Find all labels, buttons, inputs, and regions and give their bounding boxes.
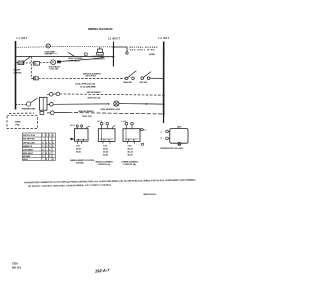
- thermostat U4 box: [170, 129, 188, 144]
- wire row C to bus: [150, 77, 164, 79]
- switch blade on row B: [68, 52, 75, 56]
- svg-text:OFF ALL SW: OFF ALL SW: [23, 141, 35, 144]
- relay coil RL1 circle: [51, 60, 56, 65]
- svg-text:L2 HOT: L2 HOT: [159, 37, 170, 40]
- wire row B' dash-dot: [23, 62, 34, 64]
- switch blade CB1: [23, 57, 30, 63]
- wire row 2 to bus: [147, 103, 164, 105]
- junction rowA x neutral: [113, 46, 115, 48]
- svg-text:NO 114: NO 114: [12, 266, 21, 270]
- fuse F1 small box on row C: [34, 77, 39, 80]
- svg-text:6D-44: 6D-44: [128, 151, 134, 154]
- relay K1 box: [34, 62, 40, 66]
- lamp DS1: [114, 101, 119, 106]
- svg-text:MAIN ELEMENT: MAIN ELEMENT: [79, 110, 95, 113]
- terminal T1a: [49, 92, 53, 96]
- wire row B solid (L1 to neutral): [16, 55, 114, 57]
- svg-text:6D-43: 6D-43: [103, 154, 108, 157]
- svg-text:MAIN: MAIN: [15, 120, 21, 123]
- wire row B' continues: [61, 57, 104, 61]
- wire mid neutral vertical: [112, 42, 114, 67]
- thermostat S4 circle: [26, 102, 30, 106]
- svg-text:0: 0: [49, 142, 50, 144]
- svg-text:6D-42: 6D-42: [128, 148, 133, 151]
- svg-text:2.: 2.: [161, 138, 163, 140]
- terminal T1b: [56, 92, 60, 96]
- svg-text:L1 HOT: L1 HOT: [17, 37, 28, 40]
- terminal ground bond: [126, 52, 128, 54]
- svg-text:240V HEATER LIGHT: 240V HEATER LIGHT: [101, 108, 122, 111]
- wire row 3 left dashed: [9, 112, 34, 114]
- svg-text:2-E1A-1M IN (120V-1A): 2-E1A-1M IN (120V-1A): [75, 83, 96, 86]
- svg-text:CUTOFF: CUTOFF: [45, 54, 53, 56]
- U3 right terminal: [141, 128, 143, 130]
- svg-text:L2 NEUT: L2 NEUT: [108, 37, 121, 40]
- svg-text:LOW HEAT: LOW HEAT: [23, 148, 34, 151]
- svg-text:L1 L2: L1 L2: [122, 121, 127, 123]
- svg-text:0: 0: [46, 142, 47, 144]
- svg-text:6D-41: 6D-41: [103, 148, 108, 151]
- svg-text:HIGH: HIGH: [23, 159, 28, 161]
- element control U2 box: [98, 129, 115, 142]
- svg-text:COIL 24V: COIL 24V: [50, 68, 60, 71]
- table switch positions: [22, 133, 55, 160]
- element control U1 box: [74, 129, 88, 142]
- svg-text:SW 2-POLE: SW 2-POLE: [86, 76, 97, 78]
- selector switch SW1 box: [40, 97, 48, 110]
- svg-text:6D-42: 6D-42: [103, 151, 108, 154]
- svg-text:3: 3: [49, 135, 50, 137]
- svg-text:MED HEAT: MED HEAT: [23, 152, 34, 155]
- junction rowC x bus: [163, 78, 165, 80]
- svg-text:CONTROL (A): CONTROL (A): [98, 163, 111, 166]
- svg-text:CHANGEOVER CONNECTED TO HOT UP: CHANGEOVER CONNECTED TO HOT UPFLOW FROM …: [24, 179, 197, 185]
- svg-text:AUX SW: AUX SW: [140, 81, 148, 84]
- svg-text:WIRING DIAGRAM: WIRING DIAGRAM: [88, 27, 113, 31]
- U3 terminal list: [128, 146, 134, 157]
- svg-text:0: 0: [53, 142, 54, 144]
- svg-text:NEUTRAL BONDED: NEUTRAL BONDED: [130, 46, 159, 49]
- svg-text:SW SETTING: SW SETTING: [23, 139, 35, 141]
- svg-text:GRD NEUT WIRE: GRD NEUT WIRE: [130, 50, 156, 52]
- terminal T2a: [50, 103, 54, 107]
- thermostat S4 feed dashed: [16, 103, 27, 105]
- U4 terminal 2: [166, 137, 169, 140]
- junction rowB x neutral: [112, 56, 114, 58]
- svg-text:MAIN ELEMENT CONTROL: MAIN ELEMENT CONTROL: [70, 159, 96, 162]
- wire row A dotted (L1 to neutral): [16, 46, 47, 48]
- svg-text:CONTROL (B): CONTROL (B): [123, 164, 136, 166]
- svg-text:MAIN SW: MAIN SW: [124, 81, 133, 84]
- svg-text:192-A-7: 192-A-7: [95, 267, 111, 273]
- svg-text:6D-45: 6D-45: [128, 154, 133, 157]
- breaker CB1 box at bus: [16, 62, 19, 64]
- switch S3 lower: [141, 77, 144, 80]
- svg-text:750W 120V: 750W 120V: [82, 116, 93, 118]
- svg-text:1-E1: 1-E1: [76, 145, 80, 147]
- power source dashed box: [7, 116, 38, 129]
- switch blade S4: [30, 98, 37, 103]
- svg-text:0: 0: [42, 142, 43, 144]
- svg-text:1.: 1.: [161, 131, 163, 133]
- svg-text:6D-40: 6D-40: [76, 147, 81, 150]
- bus L2 lower stub: [163, 115, 165, 123]
- table text: [23, 134, 55, 161]
- svg-text:7316: 7316: [12, 262, 18, 266]
- svg-text:THERMOSTAT: THERMOSTAT: [22, 107, 36, 110]
- svg-text:SWITCH POS: SWITCH POS: [23, 135, 36, 137]
- wire neutral bond elbow: [114, 47, 128, 52]
- terminal T3a: [51, 111, 55, 115]
- wire row 1 element: [47, 93, 49, 95]
- svg-text:1: 1: [42, 135, 43, 137]
- svg-text:L1 L2: L1 L2: [97, 121, 102, 123]
- bus L1 (left vertical): [15, 41, 17, 110]
- svg-text:1-E2: 1-E2: [103, 146, 107, 148]
- svg-text:240V: 240V: [177, 126, 182, 129]
- U4 bottom terminal: [178, 142, 181, 145]
- wire row 1 dashed to bus: [60, 94, 164, 95]
- switch S2 upper: [125, 77, 128, 80]
- wire row A dotted right part: [50, 45, 113, 48]
- wire row C to switches: [31, 77, 125, 79]
- plug P1 high point body: [98, 49, 103, 52]
- bus L2 (right vertical): [163, 42, 165, 116]
- svg-text:500W 120V 2A: 500W 120V 2A: [88, 96, 101, 99]
- svg-text:PNL: PNL: [16, 125, 21, 127]
- svg-text:6D-41: 6D-41: [76, 150, 81, 153]
- thermostat S1 (low temp cutoff): [46, 44, 50, 48]
- svg-text:HI HEAT: HI HEAT: [23, 155, 31, 158]
- footer plate number: [12, 262, 21, 270]
- svg-text:SHUNT: SHUNT: [14, 70, 22, 72]
- wire row 3 element: [47, 112, 50, 114]
- U4 terminal 1: [166, 130, 169, 133]
- note paragraph: [24, 179, 197, 188]
- svg-text:2: 2: [46, 135, 47, 137]
- wire row 2 element: [47, 103, 50, 105]
- U1 terminal list: [76, 145, 81, 153]
- svg-text:12 GA LINE WIRE: 12 GA LINE WIRE: [80, 86, 96, 89]
- element control U3 box: [123, 129, 140, 142]
- svg-text:B4798 60101: B4798 60101: [144, 193, 157, 196]
- plug P1 high point stem: [99, 47, 101, 49]
- svg-text:(GRN): (GRN): [149, 54, 155, 56]
- svg-text:(1500W): (1500W): [76, 163, 84, 165]
- connector J1 small box: [40, 112, 44, 115]
- U2 terminal list: [103, 146, 108, 157]
- svg-text:CONTRL: CONTRL: [14, 72, 23, 74]
- arrow into U1: [70, 138, 74, 140]
- wire row C elbow drop: [30, 57, 32, 79]
- svg-text:THERMOSTAT (HI LIMIT): THERMOSTAT (HI LIMIT): [160, 147, 184, 150]
- svg-text:2-1: 2-1: [143, 130, 146, 132]
- svg-text:WARM UP: WARM UP: [23, 145, 33, 148]
- svg-text:NO WASTE: CONTROL SWITCHES, TR: NO WASTE: CONTROL SWITCHES, TRANSFORMER.…: [28, 184, 112, 188]
- svg-text:L1 L2: L1 L2: [70, 125, 75, 127]
- svg-text:MID ELEMENT: MID ELEMENT: [87, 92, 102, 94]
- svg-text:1-E3: 1-E3: [128, 146, 132, 148]
